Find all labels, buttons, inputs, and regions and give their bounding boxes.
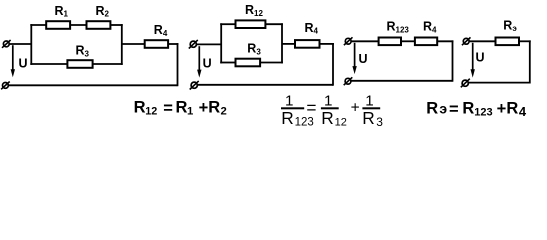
svg-text:123: 123	[295, 117, 314, 129]
svg-text:12: 12	[145, 106, 157, 118]
svg-text:R: R	[134, 99, 146, 117]
svg-text:12: 12	[335, 117, 347, 129]
svg-text:123: 123	[474, 107, 492, 119]
svg-text:R: R	[321, 108, 333, 128]
svg-text:=: =	[306, 98, 316, 118]
svg-text:+: +	[351, 99, 360, 116]
svg-text:U: U	[359, 52, 368, 66]
svg-text:U: U	[476, 51, 485, 65]
svg-text:U: U	[203, 57, 212, 71]
svg-text:U: U	[19, 57, 28, 71]
svg-text:э: э	[439, 101, 447, 117]
svg-text:R: R	[462, 100, 474, 118]
svg-text:R: R	[281, 108, 293, 128]
svg-text:R: R	[426, 100, 438, 118]
svg-text:3: 3	[376, 115, 383, 129]
svg-text:=: =	[449, 101, 459, 119]
svg-text:+: +	[199, 99, 209, 117]
svg-text:+: +	[497, 100, 507, 118]
svg-text:=: =	[163, 99, 173, 117]
svg-text:2: 2	[221, 106, 227, 118]
svg-text:4: 4	[519, 104, 527, 119]
svg-text:R: R	[176, 99, 188, 117]
svg-text:R: R	[208, 99, 220, 117]
svg-text:R: R	[362, 108, 374, 128]
svg-text:R: R	[506, 100, 518, 118]
svg-text:1: 1	[187, 106, 193, 118]
